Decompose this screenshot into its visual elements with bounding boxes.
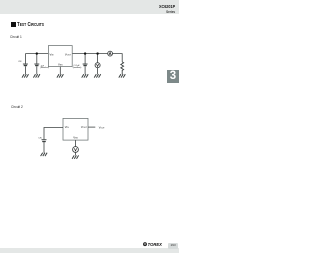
svg-text:VIN: VIN <box>50 52 54 56</box>
svg-text:VSS: VSS <box>58 63 63 67</box>
svg-text:(tantalum): (tantalum) <box>73 66 82 69</box>
svg-text:CIN: CIN <box>38 137 42 139</box>
svg-text:VOUT: VOUT <box>99 125 106 129</box>
svg-text:(tantalum): (tantalum) <box>40 66 49 69</box>
svg-text:TOREX: TOREX <box>148 242 163 247</box>
svg-text:CIN: CIN <box>18 61 22 63</box>
svg-text:VSS: VSS <box>73 136 78 140</box>
svg-text:VOUT: VOUT <box>65 52 72 56</box>
svg-text:VIN: VIN <box>65 125 69 129</box>
svg-text:VOUT: VOUT <box>81 125 88 129</box>
